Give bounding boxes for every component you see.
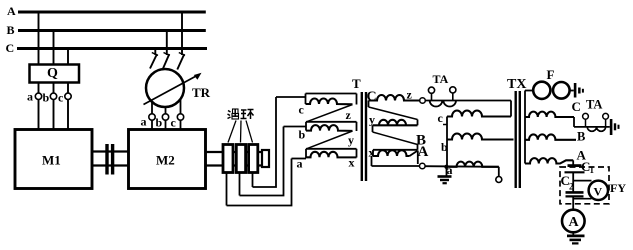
terminal a under TR	[149, 114, 155, 120]
wire down to terminal	[498, 167, 500, 177]
svg-text:b: b	[156, 116, 163, 130]
switch blade phase A	[179, 53, 185, 56]
svg-text:a: a	[27, 90, 33, 104]
wire U route ring2	[240, 127, 284, 196]
current transformer TA1	[425, 100, 511, 102]
wire U route ring3	[253, 97, 277, 187]
wire U route ring1	[227, 159, 292, 206]
svg-text:B: B	[577, 130, 585, 144]
svg-text:b: b	[441, 140, 448, 154]
svg-text:TX: TX	[507, 77, 526, 92]
switch blade phase B	[164, 53, 170, 56]
svg-text:c: c	[171, 116, 177, 130]
brush wire ring1 down	[226, 173, 228, 206]
rail c-b-a to ground	[446, 117, 448, 167]
svg-text:B: B	[7, 23, 15, 37]
terminal b under TR	[162, 114, 168, 120]
svg-text:F: F	[547, 67, 555, 82]
wire F to jack	[570, 90, 574, 92]
shaft M2 to slip rings	[206, 151, 263, 153]
wire to ammeter	[572, 196, 574, 209]
open terminal bottom middle	[496, 177, 502, 183]
svg-text:A: A	[7, 4, 16, 18]
transformer T primary winding a-x	[306, 148, 357, 150]
TX secondary winding 4 (A to FY)	[525, 158, 573, 163]
svg-text:y: y	[348, 133, 354, 147]
svg-text:TA: TA	[433, 72, 449, 86]
switch Q	[30, 65, 80, 83]
bus line C	[17, 47, 207, 50]
capacitor C1	[568, 164, 582, 167]
shaft end cap	[262, 150, 269, 167]
svg-text:c: c	[58, 91, 64, 105]
wire terminal b to M2	[165, 120, 167, 129]
svg-text:x: x	[349, 156, 355, 170]
terminal b under Q	[50, 93, 56, 99]
transformer T primary winding c-z	[306, 93, 357, 95]
wire terminal a to M2	[151, 120, 153, 129]
terminal z of T secondary	[420, 98, 426, 104]
svg-text:TA: TA	[586, 98, 602, 112]
wire bus B to Q	[53, 31, 55, 65]
svg-text:TR: TR	[192, 85, 211, 100]
leader lines from label to rings	[228, 121, 236, 143]
wire stub to T winding b	[284, 126, 307, 128]
brush wire ring2 down	[239, 173, 241, 196]
slip ring 2	[236, 145, 245, 173]
motor M2	[129, 130, 206, 189]
wire bus B to TR switch	[166, 31, 168, 56]
svg-text:z: z	[407, 88, 413, 102]
current transformer TA2	[574, 126, 610, 128]
T secondary bottom line with terminal	[371, 156, 373, 166]
wire terminal a to M1	[38, 100, 40, 130]
TX primary coil upper	[447, 111, 511, 117]
wire C1 to divider	[572, 172, 574, 192]
protection gap F circle 1	[533, 82, 550, 99]
voltmeter V	[589, 181, 608, 200]
slip ring 1	[223, 145, 233, 173]
slip ring 3	[249, 145, 258, 173]
transformer T core	[361, 92, 363, 181]
svg-text:c: c	[299, 103, 305, 117]
wire stub to T winding c	[276, 96, 306, 98]
svg-text:Q: Q	[47, 66, 58, 81]
terminal c under Q	[65, 93, 71, 99]
ground at a	[446, 167, 448, 176]
svg-text:b: b	[299, 128, 306, 142]
TR output lead c	[180, 99, 182, 114]
motor M1	[15, 130, 92, 189]
wire A down to C1	[572, 160, 574, 164]
wire y to a diagonal	[307, 131, 353, 149]
svg-text:A: A	[418, 144, 429, 160]
svg-text:a: a	[141, 115, 147, 129]
wire terminal c to M2	[180, 120, 182, 129]
wire z to b diagonal	[307, 105, 353, 122]
wire stub to T winding a	[292, 158, 307, 160]
transformer TX core	[515, 91, 517, 188]
svg-text:C: C	[572, 99, 581, 114]
label huan-ring (Chinese)	[228, 109, 254, 119]
wire terminal c to M1	[67, 100, 69, 130]
TX secondary winding 2 (to C / TA)	[525, 112, 574, 117]
ground under ammeter	[572, 232, 574, 235]
TX primary coil lower	[447, 134, 514, 140]
terminal a under Q	[35, 93, 41, 99]
svg-text:2: 2	[569, 182, 574, 192]
wire bus C to Q	[67, 49, 69, 65]
TX secondary winding 3 (B)	[525, 134, 576, 139]
svg-text:c: c	[438, 111, 444, 125]
wire to voltmeter top	[573, 180, 591, 182]
branch F: wire	[525, 90, 533, 92]
wire Q output a	[38, 83, 40, 94]
shaft coupling between M1 and M2	[92, 150, 129, 152]
TR output lead a	[151, 103, 153, 114]
bus line B	[18, 29, 206, 32]
wire Q output c	[67, 83, 69, 94]
jack terminal after TA2	[610, 119, 613, 135]
TX secondary rail	[524, 91, 526, 164]
wire voltmeter bottom	[573, 198, 591, 200]
switch blade phase C	[154, 49, 156, 56]
wire bus A to TR switch	[181, 12, 183, 55]
svg-text:M2: M2	[156, 153, 175, 168]
terminal A of T secondary	[420, 163, 426, 169]
svg-text:T: T	[352, 76, 361, 91]
wire Q output b	[53, 83, 55, 94]
svg-text:A: A	[569, 215, 580, 230]
grounding coil on bottom line	[449, 162, 499, 167]
svg-text:M1: M1	[42, 153, 61, 168]
svg-text:V: V	[594, 185, 603, 199]
jack terminal after F	[574, 83, 577, 98]
wire terminal b to M1	[53, 100, 55, 130]
svg-text:a: a	[297, 157, 303, 171]
protection gap F circle 2	[553, 82, 570, 99]
capacitor C2	[566, 191, 584, 194]
svg-text:C: C	[6, 41, 15, 55]
wire bus A to Q	[38, 12, 40, 65]
wire C-row left vert and diagonal	[368, 101, 370, 108]
svg-text:FY: FY	[610, 181, 626, 195]
bus line A	[18, 11, 206, 14]
divider box FY (dashed)	[560, 167, 609, 204]
autotransformer TR	[146, 69, 184, 107]
junction a	[444, 165, 448, 169]
svg-text:b: b	[43, 91, 50, 105]
transformer T secondary winding x-A	[373, 149, 418, 151]
transformer T primary winding b-y	[306, 121, 357, 123]
terminal c under TR	[177, 114, 183, 120]
ammeter A	[562, 210, 585, 233]
TR output lead b	[165, 107, 167, 114]
brush wire ring3 down	[252, 173, 254, 188]
svg-text:z: z	[346, 108, 352, 122]
